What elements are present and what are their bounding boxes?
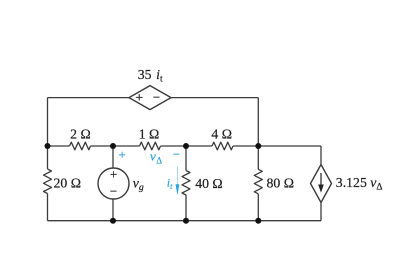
resistor 20 ohm (44, 169, 52, 194)
current arrow inside dependent current source (318, 173, 324, 193)
wire right column lower (257, 194, 259, 221)
resistor 2 ohm (70, 142, 91, 150)
voltage source vg circle (98, 168, 129, 199)
node dot 80ohm top (255, 143, 261, 149)
svg-text:35 it: 35 it (138, 67, 163, 85)
wire middle segment d (233, 145, 321, 147)
wire left vertical lower (47, 194, 49, 221)
svg-text:it: it (167, 175, 173, 191)
dependent voltage source diamond 35it (129, 86, 171, 110)
wire bottom horizontal (48, 220, 322, 222)
wire middle segment b (91, 145, 140, 147)
wire left vertical upper (47, 98, 49, 169)
svg-text:+: + (135, 91, 143, 106)
wire far-right upper (320, 146, 322, 165)
node dot 40ohm bottom (183, 218, 189, 224)
node dot vg top (110, 143, 116, 149)
svg-text:3.125 vΔ: 3.125 vΔ (336, 175, 383, 193)
svg-text:+: + (110, 167, 117, 182)
wire vg branch upper (112, 146, 114, 168)
wire top-left horizontal (48, 97, 130, 99)
svg-text:4 Ω: 4 Ω (211, 127, 232, 142)
resistor 4 ohm (212, 142, 233, 150)
wire top-right horizontal (171, 97, 258, 99)
cyan current arrow it (176, 167, 180, 196)
svg-text:2 Ω: 2 Ω (70, 126, 91, 141)
svg-text:1 Ω: 1 Ω (139, 127, 160, 142)
wire 40ohm branch lower (185, 195, 187, 221)
svg-text:−: − (110, 184, 117, 199)
svg-text:20 Ω: 20 Ω (54, 176, 82, 191)
resistor 40 ohm (182, 171, 190, 196)
resistor 1 ohm (140, 142, 161, 150)
svg-text:40 Ω: 40 Ω (195, 176, 223, 191)
node dot 80ohm bottom (255, 218, 261, 224)
svg-text:+: + (119, 147, 126, 162)
wire middle segment c (161, 145, 213, 147)
node dot vg bottom (110, 218, 116, 224)
svg-text:vΔ: vΔ (150, 149, 162, 166)
node dot 40ohm top (183, 143, 189, 149)
svg-text:−: − (153, 89, 160, 104)
wire middle segment a (48, 145, 70, 147)
wire 40ohm branch upper (185, 146, 187, 171)
node dot left-middle (45, 143, 51, 149)
svg-text:−: − (173, 146, 180, 161)
wire vg branch lower (112, 199, 114, 221)
wire right column upper (257, 98, 259, 170)
wire far-right lower (320, 203, 322, 221)
svg-text:vg: vg (133, 176, 144, 194)
dependent current source diamond 3.125vD (311, 165, 332, 203)
svg-text:80 Ω: 80 Ω (267, 176, 295, 191)
resistor 80 ohm (254, 169, 262, 194)
